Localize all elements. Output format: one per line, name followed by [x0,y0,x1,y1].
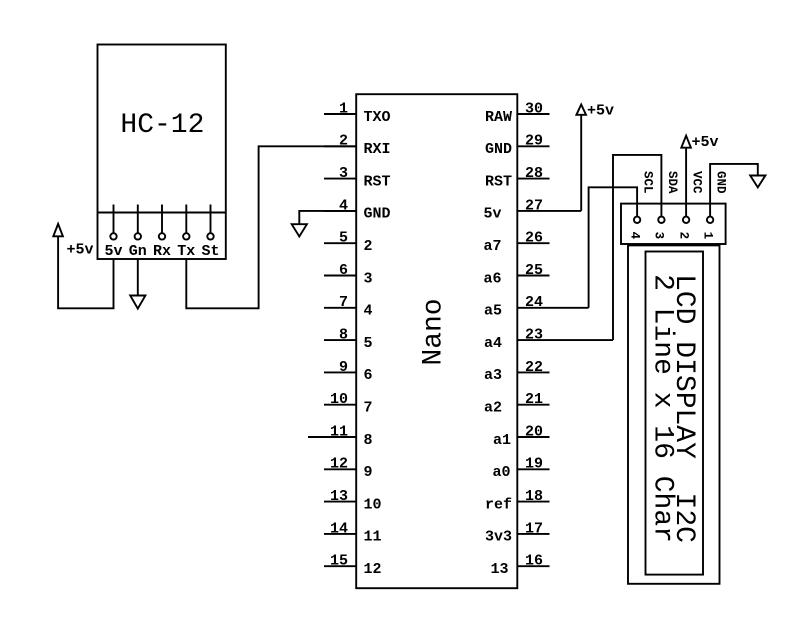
svg-text:10: 10 [364,496,382,513]
svg-text:17: 17 [525,520,543,537]
svg-text:12: 12 [364,561,382,578]
svg-text:Gn: Gn [129,243,147,260]
svg-text:HC-12: HC-12 [120,110,204,141]
svg-text:23: 23 [525,327,543,344]
svg-text:3v3: 3v3 [485,529,512,546]
svg-text:11: 11 [364,529,382,546]
svg-text:6: 6 [364,367,373,384]
Nano pin 20 (a1) [493,423,550,448]
svg-text:Nano: Nano [418,298,449,365]
wire LCD GND to ground [710,164,758,204]
power +5v symbol (at LCD VCC) [681,134,718,151]
ground symbol (LCD GND) [750,176,765,188]
svg-text:Tx: Tx [177,243,195,260]
svg-text:5: 5 [364,335,373,352]
svg-text:9: 9 [339,359,348,376]
svg-text:St: St [201,243,219,260]
svg-text:30: 30 [525,100,543,117]
Nano pin 16 (13) [491,553,550,578]
svg-text:a4: a4 [484,335,502,352]
svg-text:a7: a7 [484,238,502,255]
svg-text:a0: a0 [493,464,511,481]
svg-text:3: 3 [652,232,666,240]
svg-text:12: 12 [330,456,348,473]
wire Nano 5v to +5v [580,115,582,211]
HC-12 pin 3 (Rx) [153,205,171,261]
svg-text:+5v: +5v [692,134,719,151]
svg-text:8: 8 [339,327,348,344]
svg-text:2 Line x 16 Char: 2 Line x 16 Char [647,274,678,543]
svg-text:GND: GND [485,141,512,158]
Nano pin 18 (ref) [485,488,550,513]
svg-text:GND: GND [364,206,391,223]
Nano pin 26 (a7) [484,230,550,255]
LCD I2C header body [621,204,726,244]
Nano pin 28 (RST) [485,165,550,190]
svg-text:27: 27 [525,197,543,214]
svg-text:18: 18 [525,488,543,505]
svg-text:9: 9 [364,464,373,481]
LCD header pin 1 (GND) [700,171,727,239]
svg-text:28: 28 [525,165,543,182]
svg-text:29: 29 [525,133,543,150]
HC-12 module body [98,45,226,260]
svg-text:20: 20 [525,423,543,440]
Nano pin 1 (TXO) [324,100,391,125]
LCD header pin 2 (VCC) [676,171,703,239]
HC-12 pin 5 (St) [201,205,219,261]
Nano pin 25 (a6) [484,262,550,287]
Nano pin 5 (2) [324,230,373,255]
svg-text:RXI: RXI [364,141,391,158]
LCD header pin 3 (SDA) [652,171,679,239]
HC-12 pin 4 (Tx) [177,205,195,261]
wire +5v to HC-12 pin 5v [58,236,113,308]
svg-text:3: 3 [339,165,348,182]
svg-text:+5v: +5v [67,241,94,258]
svg-text:8: 8 [364,432,373,449]
Nano pin 21 (a2) [484,391,550,416]
svg-text:a5: a5 [484,303,502,320]
wire Nano GND to ground [299,211,356,224]
svg-text:13: 13 [330,488,348,505]
svg-text:22: 22 [525,359,543,376]
Nano pin 7 (4) [324,294,373,319]
wire Nano a5 to LCD SCL [589,187,638,307]
svg-text:a6: a6 [484,270,502,287]
svg-text:a1: a1 [493,432,511,449]
svg-text:a2: a2 [484,400,502,417]
svg-text:4: 4 [364,303,373,320]
Nano pin 19 (a0) [493,456,550,481]
svg-text:Rx: Rx [153,243,171,260]
svg-text:5v: 5v [484,206,502,223]
power +5v symbol (at Nano 5v) [576,103,614,120]
svg-text:6: 6 [339,262,348,279]
svg-text:2: 2 [339,133,348,150]
wire HC-12 Gn to ground [137,259,139,296]
svg-text:26: 26 [525,230,543,247]
LCD display body [628,245,720,583]
svg-text:3: 3 [364,270,373,287]
Nano pin 15 (12) [324,553,382,578]
Nano pin 13 (10) [324,488,382,513]
Nano pin 24 (a5) [484,294,589,319]
svg-text:GND: GND [714,171,728,194]
svg-text:21: 21 [525,391,543,408]
svg-text:1: 1 [700,232,714,240]
LCD display label [647,274,700,543]
svg-text:5v: 5v [104,243,122,260]
svg-text:13: 13 [491,561,509,578]
svg-text:RAW: RAW [485,109,512,126]
Nano pin 6 (3) [324,262,373,287]
svg-text:14: 14 [330,520,348,537]
wire LCD VCC to +5v [685,148,687,204]
Nano pin 9 (6) [324,359,373,384]
svg-text:15: 15 [330,553,348,570]
svg-text:7: 7 [339,294,348,311]
svg-text:RST: RST [364,173,391,190]
svg-text:a3: a3 [484,367,502,384]
svg-text:TXO: TXO [364,109,391,126]
Nano pin 30 (RAW) [485,100,550,125]
svg-text:VCC: VCC [690,171,704,194]
svg-text:24: 24 [525,294,543,311]
ground symbol (Nano GND) [292,224,307,236]
svg-text:16: 16 [525,553,543,570]
svg-text:10: 10 [330,391,348,408]
Nano pin 2 (RXI) [324,133,391,158]
svg-text:11: 11 [330,423,348,440]
svg-text:RST: RST [485,173,512,190]
Nano pin 14 (11) [324,520,382,545]
svg-text:19: 19 [525,456,543,473]
svg-text:7: 7 [364,400,373,417]
Nano pin 3 (RST) [324,165,391,190]
Nano pin 11 (8) [308,423,373,448]
Nano pin 17 (3v3) [485,520,550,545]
Nano pin 29 (GND) [485,133,550,158]
svg-text:SCL: SCL [641,171,655,194]
LCD header pin 4 (SCL) [627,171,654,240]
wire Nano a4 to LCD SDA [613,155,661,340]
ground symbol (HC-12 Gn) [130,296,145,309]
Nano pin 10 (7) [324,391,373,416]
Nano pin 8 (5) [324,327,373,352]
svg-text:4: 4 [627,232,641,240]
svg-text:2: 2 [676,232,690,240]
HC-12 pin 2 (Gn) [129,205,147,261]
Nano pin 4 (GND) [324,197,391,222]
svg-text:25: 25 [525,262,543,279]
HC-12 pin 1 (5v) [104,205,122,261]
svg-text:1: 1 [339,100,348,117]
svg-text:ref: ref [485,496,512,513]
power +5v symbol (at HC-12) [53,224,93,259]
Nano pin 12 (9) [324,456,373,481]
Nano pin 23 (a4) [484,327,613,352]
Nano module body [356,94,517,588]
svg-text:SDA: SDA [665,171,679,194]
svg-text:+5v: +5v [587,103,614,120]
svg-text:2: 2 [364,238,373,255]
svg-text:5: 5 [339,230,348,247]
Nano pin 27 (5v) [484,197,582,222]
Nano pin 22 (a3) [484,359,550,384]
wire HC-12 Tx to Nano RXI [186,146,356,308]
